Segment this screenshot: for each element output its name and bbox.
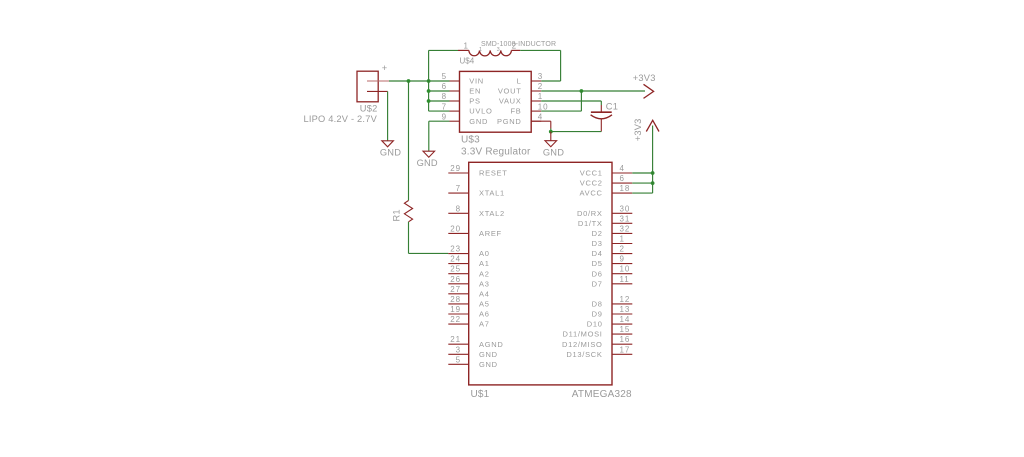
svg-text:AVCC: AVCC	[580, 189, 603, 198]
junction VBAT/R1	[407, 79, 411, 83]
svg-text:7: 7	[442, 102, 447, 111]
U$3 pin 2 (VOUT)	[531, 90, 541, 92]
svg-text:D13/SCK: D13/SCK	[566, 350, 602, 359]
wire C1 bottom to PGND	[551, 131, 602, 133]
svg-text:1: 1	[464, 41, 469, 50]
svg-text:VAUX: VAUX	[499, 97, 522, 106]
svg-text:14: 14	[620, 315, 631, 324]
U$1 pin 13 (D9)	[612, 313, 632, 315]
U$1 pin 12 (D8)	[612, 303, 632, 305]
svg-text:AREF: AREF	[479, 229, 502, 238]
junction EN	[427, 89, 431, 93]
U$1 pin 28 (A5)	[448, 303, 468, 305]
resistor R1	[391, 201, 412, 222]
capacitor C1	[591, 101, 618, 131]
U$3 pin 1 (VAUX)	[531, 100, 541, 102]
U$1 pin 26 (A3)	[448, 283, 468, 285]
svg-text:20: 20	[450, 224, 461, 233]
svg-text:5: 5	[456, 355, 461, 364]
ground (battery)	[380, 141, 401, 158]
U$1 pin 1 (D3)	[612, 243, 632, 245]
svg-text:+: +	[382, 63, 388, 73]
U$1 pin 7 (XTAL1)	[448, 192, 468, 194]
svg-text:XTAL2: XTAL2	[479, 209, 505, 218]
U$1 pin 6 (VCC2)	[612, 182, 632, 184]
svg-text:VCC2: VCC2	[580, 179, 603, 188]
svg-text:PGND: PGND	[497, 117, 521, 126]
svg-text:22: 22	[450, 315, 461, 324]
wire VOUT to +3V3 arrow	[541, 90, 645, 92]
wire +3V3 vertical riser	[652, 126, 654, 194]
svg-text:2: 2	[620, 245, 625, 254]
svg-text:1: 1	[620, 235, 625, 244]
svg-text:L: L	[517, 77, 522, 86]
ground (PGND)	[543, 132, 564, 158]
svg-text:+3V3: +3V3	[633, 73, 656, 83]
svg-text:3: 3	[538, 72, 543, 81]
U$1 pin 25 (A2)	[448, 273, 468, 275]
wire EN connect	[429, 90, 450, 92]
wire GND pin9	[429, 120, 450, 122]
svg-text:18: 18	[620, 184, 631, 193]
svg-text:U$2: U$2	[360, 104, 378, 114]
svg-text:EN: EN	[469, 87, 481, 96]
regulator U$3 3.3V Regulator	[442, 71, 549, 157]
U$3 pin 4 (PGND)	[531, 120, 541, 122]
svg-text:13: 13	[620, 305, 631, 314]
ground (U$3 pin 9)	[417, 151, 438, 168]
svg-text:SMD-1008-INDUCTOR: SMD-1008-INDUCTOR	[481, 41, 556, 48]
svg-text:10: 10	[620, 265, 631, 274]
svg-text:GND: GND	[380, 148, 401, 158]
svg-text:7: 7	[456, 184, 461, 193]
U$1 pin 19 (A6)	[448, 313, 468, 315]
svg-text:16: 16	[620, 335, 631, 344]
svg-text:9: 9	[620, 255, 625, 264]
svg-text:10: 10	[538, 102, 549, 111]
U$1 pin 30 (D0/RX)	[612, 212, 632, 214]
U$1 pin 21 (AGND)	[448, 343, 468, 345]
svg-text:11: 11	[620, 275, 630, 284]
U$1 pin 17 (D13/SCK)	[612, 353, 632, 355]
svg-text:U$4: U$4	[460, 57, 475, 66]
wire PS connect	[429, 100, 450, 102]
svg-text:A0: A0	[479, 249, 490, 258]
svg-text:D2: D2	[592, 229, 603, 238]
svg-text:VCC1: VCC1	[580, 169, 603, 178]
svg-text:12: 12	[620, 295, 631, 304]
svg-text:17: 17	[620, 345, 631, 354]
svg-text:3.3V Regulator: 3.3V Regulator	[461, 147, 531, 158]
svg-text:LIPO 4.2V - 2.7V: LIPO 4.2V - 2.7V	[304, 114, 378, 124]
microcontroller U$1 ATMEGA328	[448, 162, 632, 400]
svg-text:D8: D8	[592, 300, 603, 309]
U$1 pin 27 (A4)	[448, 293, 468, 295]
U$1 pin 18 (AVCC)	[612, 192, 632, 194]
svg-text:2: 2	[538, 82, 543, 91]
svg-text:VOUT: VOUT	[498, 87, 522, 96]
svg-text:U$3: U$3	[461, 135, 480, 146]
wire L pin connect	[541, 80, 560, 82]
U$1 pin 4 (VCC1)	[612, 172, 632, 174]
svg-text:D1/TX: D1/TX	[578, 219, 603, 228]
U$3 pin 5 (VIN)	[450, 80, 460, 82]
svg-text:D11/MOSI: D11/MOSI	[563, 330, 603, 339]
svg-text:GND: GND	[543, 147, 564, 157]
svg-text:XTAL1: XTAL1	[479, 189, 505, 198]
svg-text:D3: D3	[592, 239, 603, 248]
U$1 pin 32 (D2)	[612, 232, 632, 234]
U$1 pin 31 (D1/TX)	[612, 222, 632, 224]
wire FB feedback	[580, 91, 582, 111]
svg-text:21: 21	[450, 335, 461, 344]
U$1 pin 22 (A7)	[448, 323, 468, 325]
U$1 pin 11 (D7)	[612, 283, 632, 285]
svg-text:UVLO: UVLO	[469, 107, 492, 116]
svg-text:U$1: U$1	[471, 389, 490, 400]
U$3 pin 9 (GND)	[450, 120, 460, 122]
wire inductor left	[429, 49, 458, 51]
svg-text:D4: D4	[592, 249, 603, 258]
svg-text:4: 4	[620, 164, 625, 173]
svg-text:D6: D6	[592, 269, 603, 278]
junction VCC2	[651, 181, 655, 185]
svg-text:29: 29	[450, 164, 461, 173]
wire UVLO connect	[429, 110, 450, 112]
wire VBAT battery to VIN	[389, 80, 450, 82]
U$2 pin - (minus terminal)	[367, 90, 388, 92]
svg-text:D10: D10	[587, 320, 603, 329]
U$1 pin 8 (XTAL2)	[448, 212, 468, 214]
wire vertical branch x428.6 (to inductor and UVLO)	[428, 50, 430, 111]
junction PS	[427, 99, 431, 103]
svg-text:8: 8	[442, 92, 447, 101]
svg-text:A1: A1	[479, 259, 490, 268]
svg-text:C1: C1	[606, 101, 618, 111]
wire inductor right to L pin	[520, 49, 560, 51]
supply +3V3 (vertical arrow)	[633, 119, 659, 142]
U$1 pin 10 (D6)	[612, 273, 632, 275]
svg-text:A5: A5	[479, 300, 490, 309]
U$1 pin 2 (D4)	[612, 253, 632, 255]
U$1 pin 5 (GND)	[448, 363, 468, 365]
wire VCC1	[632, 172, 652, 174]
svg-text:26: 26	[450, 275, 461, 284]
junction VOUT/FB	[580, 89, 584, 93]
svg-text:R1: R1	[391, 209, 401, 221]
svg-text:1: 1	[538, 92, 543, 101]
svg-text:27: 27	[450, 285, 461, 294]
svg-text:25: 25	[450, 265, 461, 274]
svg-text:3: 3	[456, 345, 461, 354]
svg-text:6: 6	[620, 174, 625, 183]
svg-text:A2: A2	[479, 269, 490, 278]
svg-text:19: 19	[450, 305, 461, 314]
wire VAUX to C1	[541, 100, 601, 102]
svg-text:15: 15	[620, 325, 631, 334]
svg-text:RESET: RESET	[479, 169, 508, 178]
supply +3V3 (horizontal arrow)	[633, 73, 656, 99]
U$3 pin 10 (FB)	[531, 110, 541, 112]
svg-text:+3V3: +3V3	[633, 119, 643, 142]
junction VCC1	[651, 171, 655, 175]
svg-text:24: 24	[450, 255, 461, 264]
svg-text:5: 5	[442, 72, 447, 81]
svg-text:30: 30	[620, 204, 631, 213]
svg-text:32: 32	[620, 224, 631, 233]
svg-text:A3: A3	[479, 279, 490, 288]
U$1 pin 20 (AREF)	[448, 232, 468, 234]
svg-text:FB: FB	[511, 107, 522, 116]
svg-text:4: 4	[538, 112, 543, 121]
svg-text:31: 31	[620, 214, 631, 223]
svg-text:GND: GND	[479, 350, 498, 359]
U$1 pin 9 (D5)	[612, 263, 632, 265]
svg-text:6: 6	[442, 82, 447, 91]
wire R1 bottom to A0	[408, 222, 410, 254]
U$3 pin 7 (UVLO)	[450, 110, 460, 112]
svg-text:PS: PS	[469, 97, 480, 106]
U$3 pin 6 (EN)	[450, 90, 460, 92]
svg-text:GND: GND	[417, 158, 438, 168]
inductor U$4 SMD-1008-INDUCTOR	[458, 41, 556, 65]
svg-text:D5: D5	[592, 259, 603, 268]
svg-text:28: 28	[450, 295, 461, 304]
U$1 pin 16 (D12/MISO)	[612, 343, 632, 345]
U$1 pin 23 (A0)	[448, 253, 468, 255]
wire battery minus down	[387, 91, 389, 140]
U$3 pin 8 (PS)	[450, 100, 460, 102]
battery U$2	[304, 63, 390, 124]
wire AVCC	[632, 192, 652, 194]
svg-text:D7: D7	[592, 279, 603, 288]
svg-text:D9: D9	[592, 310, 603, 319]
svg-text:D12/MISO: D12/MISO	[562, 340, 603, 349]
wire PGND	[531, 120, 551, 122]
wire R1 top	[408, 81, 410, 201]
svg-text:AGND: AGND	[479, 340, 503, 349]
U$1 pin 29 (RESET)	[448, 172, 468, 174]
svg-text:ATMEGA328: ATMEGA328	[572, 389, 632, 400]
wire VCC2	[632, 182, 652, 184]
svg-text:GND: GND	[479, 360, 498, 369]
junction VBAT/EN-PS branch	[427, 79, 431, 83]
svg-text:23: 23	[450, 245, 461, 254]
U$3 pin 3 (L)	[531, 80, 541, 82]
junction PGND/C1	[549, 130, 553, 134]
svg-text:GND: GND	[469, 117, 488, 126]
U$2 pin + (plus terminal)	[367, 80, 389, 82]
U$1 pin 15 (D11/MOSI)	[612, 333, 632, 335]
svg-text:D0/RX: D0/RX	[577, 209, 603, 218]
svg-text:9: 9	[442, 112, 447, 121]
svg-text:A4: A4	[479, 289, 490, 298]
svg-text:VIN: VIN	[469, 77, 484, 86]
svg-text:A7: A7	[479, 320, 490, 329]
U$1 pin 3 (GND)	[448, 353, 468, 355]
svg-text:8: 8	[456, 204, 461, 213]
svg-text:A6: A6	[479, 310, 490, 319]
U$1 pin 24 (A1)	[448, 263, 468, 265]
U$1 pin 14 (D10)	[612, 323, 632, 325]
